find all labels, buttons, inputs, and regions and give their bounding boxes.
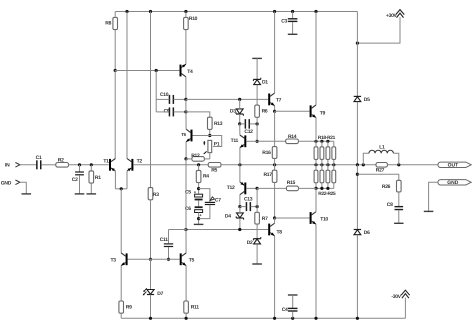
wire C12 left: [240, 123, 245, 125]
wire C10 node to T7 base: [186, 98, 268, 100]
junction R3/D7/base wire: [149, 258, 152, 261]
svg-text:R11: R11: [191, 305, 200, 311]
label C3: [281, 18, 287, 24]
capacitor C1: [36, 160, 41, 169]
wire down to T1 collector: [114, 71, 116, 159]
junction R17/T10 base/T8 collector: [273, 216, 276, 219]
transistor T10: [310, 212, 316, 225]
junction top rail T7: [273, 10, 276, 13]
junction top rail T9: [314, 10, 317, 13]
transistor T1: [109, 159, 115, 172]
ground GND flag: [424, 210, 434, 212]
wire T11 collector up: [239, 124, 241, 135]
wire to D7: [150, 259, 152, 289]
wire C12 node to T11 base node: [256, 124, 258, 141]
wire T12 base node to C13 node: [256, 188, 258, 206]
ground C3: [288, 33, 298, 35]
capacitor C12: [245, 119, 250, 128]
diode D5: [354, 96, 361, 101]
junction R8/T1 collector/T4 base: [114, 69, 117, 72]
svg-text:R6: R6: [262, 108, 268, 114]
resistor R24: [326, 170, 330, 183]
wire D2 to ground: [256, 244, 258, 264]
junction R16/R17: [273, 163, 276, 166]
svg-text:R12: R12: [191, 153, 200, 159]
svg-text:T7: T7: [276, 98, 282, 104]
wire -30V riser: [404, 298, 406, 319]
wire T11 base node to R14: [257, 140, 286, 142]
wire down to T5 collector: [185, 230, 187, 254]
svg-text:C4: C4: [282, 307, 288, 313]
svg-text:C8: C8: [387, 202, 393, 208]
label R17: [264, 172, 273, 178]
label T6: [181, 132, 186, 137]
label L1: [379, 144, 385, 150]
junction top rail R10: [184, 10, 187, 13]
wire T4 base: [115, 70, 179, 72]
label C1: [36, 155, 42, 161]
wire R20 bottom lead: [327, 159, 329, 164]
label R9: [126, 305, 132, 311]
wire T9 base: [275, 110, 310, 112]
label T1: [103, 158, 109, 164]
wire C9 right: [174, 111, 186, 113]
label C11: [160, 237, 169, 243]
wire top +rail: [115, 11, 357, 13]
wire IN to C1: [20, 164, 36, 166]
wire R23 bottom lead: [321, 183, 323, 189]
resistor R15: [286, 186, 298, 191]
wire to R1: [90, 165, 92, 171]
label D3: [230, 109, 236, 115]
wire T12 emitter to rail: [239, 165, 241, 182]
zener diode D3: [236, 109, 243, 116]
label D4: [225, 214, 231, 220]
wire R9 to bottom rail: [120, 313, 122, 318]
wire D7 to bottom rail: [150, 295, 152, 319]
junction R15/T10 collector/R22: [314, 187, 317, 190]
resistor R27: [376, 163, 387, 168]
resistor R7: [255, 212, 260, 224]
wire T10 collector to bus: [315, 188, 317, 211]
wire R8 to T4 base node: [114, 30, 116, 71]
wire D6 to bottom rail: [356, 235, 358, 318]
resistor R10: [184, 17, 189, 29]
resistor R22: [314, 170, 318, 183]
wire T5 emitter to R11: [185, 266, 187, 301]
junction R23 bottom: [320, 187, 323, 190]
wire T11 emitter to rail: [239, 148, 241, 165]
junction T5 collector/C11: [184, 228, 187, 231]
wire T6 base to R13 node: [193, 135, 210, 137]
capacitor C13: [246, 202, 251, 211]
wire R21 bottom lead: [333, 159, 335, 164]
svg-text:T2: T2: [137, 158, 143, 164]
junction R4/R5: [197, 163, 200, 166]
wire R19 bottom lead: [321, 159, 323, 164]
wire between C10 and C9 nodes: [185, 99, 187, 112]
wire R6 to C12 node: [256, 117, 258, 124]
junction R18/R22: [314, 163, 317, 166]
capacitor C11: [164, 243, 173, 247]
ground D2: [252, 263, 262, 265]
resistor R25: [332, 170, 336, 183]
svg-text:R22-R25: R22-R25: [318, 191, 336, 197]
label D2: [247, 240, 253, 246]
svg-text:D1: D1: [262, 80, 268, 86]
wire rail R5 to R27: [221, 164, 376, 166]
label R6: [262, 108, 268, 114]
svg-text:R14: R14: [288, 134, 297, 140]
label +30V: [386, 13, 398, 19]
svg-text:D4: D4: [225, 214, 231, 220]
resistor R3: [148, 188, 153, 200]
wire T7 collector to top rail: [274, 12, 276, 94]
wire T3/T5 base wire: [128, 258, 180, 260]
wire R24 bottom lead: [327, 183, 329, 189]
wire P1 bottom to R12: [209, 153, 211, 159]
wire emitter join: [115, 188, 127, 190]
zener diode D2: [253, 237, 260, 244]
net flag OUT: [438, 162, 471, 168]
wire T12 base: [246, 187, 257, 189]
svg-text:OUT: OUT: [448, 163, 459, 169]
wire C5 to C6: [198, 200, 200, 206]
svg-text:D6: D6: [364, 230, 370, 236]
wire C11 bottom lead: [168, 247, 170, 259]
wire T3 emitter to R9: [120, 266, 122, 301]
wire R11 to bottom rail: [185, 313, 187, 318]
ground input GND: [22, 193, 32, 195]
svg-text:T10: T10: [320, 217, 328, 223]
wire D3 top lead: [239, 99, 241, 109]
svg-text:T11: T11: [231, 138, 239, 144]
wire R14 to R18-R21 bus: [298, 140, 333, 142]
junction L1/R27 right: [397, 163, 400, 166]
junction +30V tap: [356, 42, 359, 45]
label T7: [276, 98, 282, 104]
resistor R2: [56, 163, 69, 168]
label T9: [320, 111, 326, 117]
wire R7 to D2: [256, 224, 258, 239]
wire C13 node to R7: [256, 207, 258, 213]
capacitor C4: [288, 308, 298, 312]
wire C9 left: [156, 111, 169, 113]
junction top rail R3: [149, 10, 152, 13]
junction T7 emitter/T9 base: [273, 110, 276, 113]
junction zobel tap: [356, 173, 359, 176]
wire rail to OUT flag: [387, 164, 438, 166]
wire T8 collector up: [274, 218, 276, 223]
wire T4 collector down to C10 node: [185, 77, 187, 100]
label T8: [277, 229, 283, 235]
wire R2 to T1 base: [69, 164, 109, 166]
svg-text:R4: R4: [203, 174, 209, 180]
wire C9 node to R13: [186, 112, 210, 117]
wire R22 bottom lead: [315, 183, 317, 189]
label R3: [153, 192, 159, 198]
svg-text:C13: C13: [244, 196, 253, 202]
label R18-R21: [318, 135, 336, 141]
label T5: [189, 257, 195, 263]
wire T6 emitter node down to T5 collector node: [185, 159, 187, 230]
wire top rail to R3: [150, 12, 152, 188]
transistor T11: [240, 135, 246, 148]
wire R21 top lead: [333, 141, 335, 147]
wire ground to D1: [256, 58, 258, 79]
svg-text:D3: D3: [230, 109, 236, 115]
svg-text:R18-R21: R18-R21: [318, 135, 336, 141]
svg-text:R27: R27: [376, 168, 385, 174]
svg-text:+30V: +30V: [386, 13, 398, 19]
junction D5/D6 output node: [356, 163, 359, 166]
wire T2 emitter down: [126, 171, 128, 189]
wire C1 to R2: [41, 164, 56, 166]
wire R18 bottom lead: [315, 159, 317, 164]
wire C7 top lead: [199, 189, 210, 202]
wire +30V branch: [357, 17, 400, 43]
svg-text:C1: C1: [36, 155, 42, 161]
svg-text:-30V: -30V: [391, 294, 401, 300]
junction D7 bottom: [149, 317, 152, 320]
label R14: [288, 134, 297, 140]
capacitor C9: [169, 107, 174, 116]
resistor R12: [192, 157, 205, 162]
junction C7 top branch: [197, 187, 200, 190]
wire R25 top lead: [333, 165, 335, 170]
label R26: [382, 184, 391, 190]
resistor R13: [208, 117, 213, 129]
label R12: [191, 153, 200, 159]
label IN: [5, 163, 10, 169]
label T10: [320, 217, 328, 223]
wire C11 to T5 collector node: [169, 229, 186, 231]
transistor T7: [268, 93, 274, 106]
transistor T6: [186, 129, 192, 142]
transistor T4: [180, 64, 186, 77]
capacitor C8: [395, 206, 404, 210]
junction D6 bottom: [356, 317, 359, 320]
wire down to R16: [274, 111, 276, 146]
zener diode D1: [253, 78, 260, 85]
resistor R14: [286, 139, 299, 144]
junction C13/R7: [256, 205, 259, 208]
wire D4 to T8 base wire: [239, 218, 241, 229]
junction R20/R24: [326, 163, 329, 166]
wire C2 to ground: [79, 175, 81, 194]
label D5: [364, 97, 370, 103]
label C5: [185, 190, 191, 196]
resistor R1: [89, 171, 94, 183]
label D7: [157, 291, 163, 297]
terminal GND: [15, 180, 20, 185]
label R2: [58, 157, 64, 163]
resistor R8: [113, 17, 118, 29]
junction T11 base/R14: [256, 140, 259, 143]
transistor T5: [180, 253, 186, 266]
label R8: [105, 21, 111, 27]
wire T12 collector down: [239, 195, 241, 207]
capacitor C6: [195, 206, 203, 212]
wire T11 base: [246, 140, 257, 142]
resistor R18: [314, 147, 318, 160]
ground above D1: [252, 57, 262, 59]
wire T6 emitter down: [185, 142, 187, 159]
svg-text:R5: R5: [211, 167, 217, 173]
label R7: [262, 216, 268, 222]
svg-text:C12: C12: [244, 129, 253, 135]
junction C10/C9 branch: [155, 69, 158, 72]
wire R26 to C8: [398, 192, 400, 206]
wire C10/C9 left leads: [155, 71, 157, 112]
label R22-R25: [318, 191, 336, 197]
wire C11 top lead: [168, 230, 170, 244]
label R10: [189, 16, 198, 22]
wire rail T2 base to R5: [134, 164, 209, 166]
wire T10 emitter to bottom rail: [315, 224, 317, 318]
resistor R23: [320, 170, 324, 183]
wire R19 top lead: [321, 141, 323, 147]
resistor R4: [196, 170, 201, 182]
wire C7 bottom lead: [199, 205, 210, 219]
label C7: [215, 197, 221, 203]
wire T10 base: [275, 217, 310, 219]
resistor R6: [255, 105, 260, 117]
junction diff pair emitters: [120, 187, 123, 190]
svg-text:C7: C7: [215, 197, 221, 203]
junction R6/C12: [256, 122, 259, 125]
wire T2 collector to top rail: [126, 12, 128, 159]
svg-text:R9: R9: [126, 305, 132, 311]
label C6: [185, 206, 191, 212]
wire rail to R4: [198, 165, 200, 171]
svg-text:R2: R2: [58, 157, 64, 163]
wire R22-R25 bottom bus: [316, 187, 334, 189]
label C10: [160, 92, 169, 98]
wire R3 to T3/T5 base node: [150, 200, 152, 259]
junction T6 emitter/R12/T5 collector: [184, 157, 187, 160]
svg-text:D2: D2: [247, 240, 253, 246]
svg-text:T9: T9: [320, 111, 326, 117]
junction R13/T6 base/P1: [208, 134, 211, 137]
wire R16 to rail to R17: [274, 158, 276, 170]
wire R18 top lead: [315, 141, 317, 147]
wire C4 to bottom rail: [292, 312, 294, 319]
svg-text:T4: T4: [187, 69, 193, 75]
wire zobel branch: [357, 174, 398, 180]
wire T12 base node to R15: [257, 187, 286, 189]
wire D5 to output node: [356, 102, 358, 165]
junction C7 bottom branch: [197, 217, 200, 220]
wire T9 collector to top rail: [315, 12, 317, 106]
label T11: [231, 138, 239, 144]
label C13: [244, 196, 253, 202]
junction C4: [291, 317, 294, 320]
resistor R16: [272, 147, 277, 159]
label T2: [137, 158, 143, 164]
svg-text:R1: R1: [95, 175, 101, 181]
inductor L1: [369, 150, 393, 153]
label R1: [95, 175, 101, 181]
capacitor C7: [205, 197, 215, 205]
wire C10 left: [156, 98, 169, 100]
label C8: [387, 202, 393, 208]
ground C5/C6: [194, 223, 204, 225]
junction T10 emitter: [314, 317, 317, 320]
transistor T8: [268, 223, 274, 236]
wire ground to C4: [292, 295, 294, 308]
svg-text:GND: GND: [447, 180, 459, 186]
svg-text:R17: R17: [264, 172, 273, 178]
junction T9 emitter/R18: [314, 140, 317, 143]
svg-text:R26: R26: [382, 184, 391, 190]
wire T7 emitter down: [274, 106, 276, 112]
svg-text:R15: R15: [287, 180, 296, 186]
label C4: [282, 307, 288, 313]
svg-text:C2: C2: [72, 177, 78, 183]
wire R23 top lead: [321, 165, 323, 170]
wire R24 top lead: [327, 165, 329, 170]
svg-text:T3: T3: [111, 257, 117, 263]
junction R20 top: [326, 140, 329, 143]
label T4: [187, 69, 193, 75]
junction D3/C12/T11 collector: [238, 122, 241, 125]
junction R19 top: [320, 140, 323, 143]
wire C3 to ground: [292, 22, 294, 34]
capacitor C3: [288, 18, 298, 22]
junction C9/T6 collector: [184, 110, 187, 113]
wire P1 wiper loop: [210, 136, 222, 147]
wire C6 to ground: [198, 213, 200, 225]
svg-text:C10: C10: [160, 92, 169, 98]
wire C12 right: [250, 123, 258, 125]
net flag GND: [438, 180, 471, 186]
wire C13 left: [240, 206, 246, 208]
resistor R17: [272, 170, 277, 182]
capacitor C2: [75, 171, 84, 175]
svg-text:R13: R13: [214, 121, 223, 127]
junction top rail C3: [291, 10, 294, 13]
svg-text:T8: T8: [277, 229, 283, 235]
junction R24 bottom: [326, 187, 329, 190]
label R11: [191, 305, 200, 311]
wire C8 to ground: [398, 210, 400, 223]
junction D4/T8 base wire: [238, 228, 241, 231]
junction T11/T12: [238, 163, 241, 166]
capacitor C10: [169, 95, 174, 104]
wire R17 down to T10 base node: [274, 182, 276, 218]
junction R19/R23: [320, 163, 323, 166]
wire GND flag to ground: [429, 182, 438, 211]
junction C13/D4: [238, 205, 241, 208]
wire R10 to T4 emitter: [185, 30, 187, 65]
label T12: [227, 185, 235, 191]
terminal IN: [15, 163, 20, 168]
wire D3 to C12 node: [239, 114, 241, 124]
junction T12 base/R15/R7 chain: [256, 187, 259, 190]
power -30V arrow: [401, 290, 410, 298]
svg-text:T12: T12: [227, 185, 235, 191]
wire D4 top lead: [239, 207, 241, 213]
wire T5 collector node to T8 base: [186, 229, 268, 231]
wire D1 to R6: [256, 85, 258, 105]
wire T9 emitter to bus: [315, 118, 317, 142]
svg-text:IN: IN: [5, 163, 10, 169]
label +: [199, 212, 202, 217]
wire +rail down to D5: [356, 12, 358, 97]
ground R1: [87, 193, 97, 195]
wire emitters to T3 collector: [120, 189, 122, 253]
